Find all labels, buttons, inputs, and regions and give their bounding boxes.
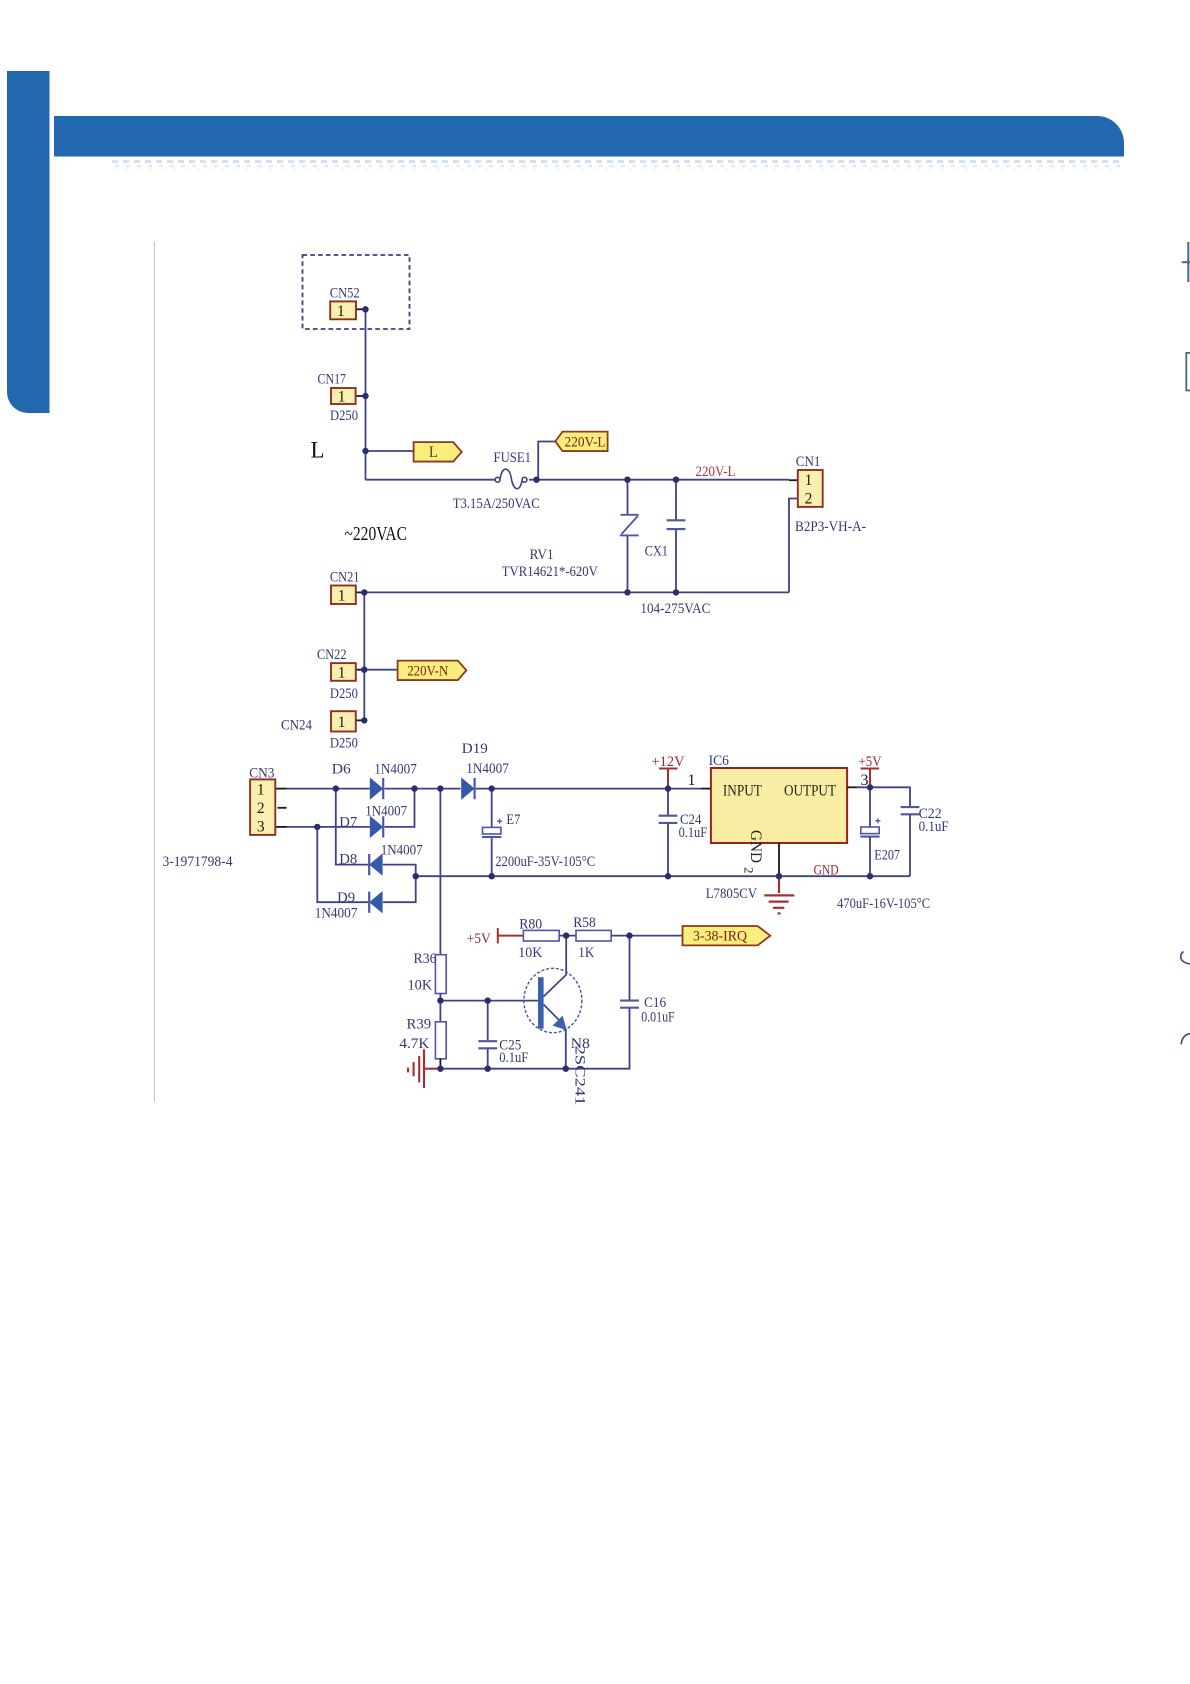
node D7 anode branch	[314, 824, 320, 830]
wire emitter vertical	[565, 1029, 567, 1069]
wire up to 220V-L flag	[538, 442, 555, 480]
diode D7	[370, 816, 383, 838]
svg-text:TVR14621*-620V: TVR14621*-620V	[502, 564, 598, 580]
node fuse out	[533, 477, 539, 483]
wire RV1 bottom lead	[627, 536, 629, 592]
capacitor C24 symbol	[659, 815, 678, 817]
svg-text:1: 1	[338, 714, 346, 731]
svg-text:1N4007: 1N4007	[381, 843, 423, 859]
wire R80 to R58	[559, 935, 576, 937]
wire CX1 top lead	[675, 480, 677, 520]
node raw dc tap	[437, 785, 443, 791]
svg-text:E7: E7	[506, 812, 520, 828]
wire CN1 pin2 down	[789, 499, 798, 593]
svg-text:10K: 10K	[408, 978, 433, 994]
varistor RV1 symbol	[620, 515, 639, 536]
svg-text:INPUT: INPUT	[723, 783, 762, 800]
svg-text:RV1: RV1	[530, 547, 554, 563]
node E7 gnd	[489, 873, 495, 879]
svg-text:+12V: +12V	[652, 754, 685, 770]
svg-text:3-1971798-4: 3-1971798-4	[163, 854, 233, 870]
wire E207 bottom lead	[869, 837, 871, 876]
wire FUSE1 to CN1 pin1	[529, 479, 789, 481]
svg-text:D250: D250	[330, 408, 358, 424]
node CN21 pin	[361, 589, 367, 595]
svg-text:CN17: CN17	[318, 372, 347, 388]
pin stub CN52	[355, 308, 365, 310]
diode D6	[370, 777, 383, 799]
node CN17 pin	[362, 393, 368, 399]
svg-text:B2P3-VH-A-: B2P3-VH-A-	[795, 519, 866, 535]
svg-text:2: 2	[742, 867, 757, 874]
connector CN24	[331, 711, 356, 731]
connector CN17	[331, 388, 356, 404]
svg-text:E207: E207	[874, 848, 900, 864]
clipped rectangle right edge	[1186, 353, 1190, 391]
wire C25 bottom lead	[487, 1049, 489, 1069]
fuse FUSE1 symbol	[495, 469, 527, 488]
diode D8	[369, 853, 382, 875]
wire to L flag	[366, 450, 414, 452]
node base divider	[437, 997, 443, 1003]
svg-text:+5V: +5V	[859, 754, 882, 770]
wire C24 bottom lead	[667, 823, 669, 876]
svg-text:2200uF-35V-105°C: 2200uF-35V-105°C	[495, 854, 595, 870]
power symbol +5V at IC6	[861, 769, 880, 787]
pin stub IC6 pin1	[701, 788, 711, 790]
wire D6 cathode rail	[385, 788, 461, 790]
connector CN1	[798, 470, 823, 507]
node D6/D7 cathode	[411, 785, 417, 791]
wire CN21-CN22-CN24 vertical	[363, 592, 365, 720]
svg-text:D6: D6	[332, 762, 352, 778]
node L tap	[362, 448, 368, 454]
svg-text:R36: R36	[414, 951, 437, 967]
svg-text:CN22: CN22	[317, 647, 347, 663]
svg-text:220V-L: 220V-L	[696, 464, 736, 480]
svg-text:D250: D250	[330, 736, 358, 752]
wire D9 anode to gnd rail	[383, 876, 416, 902]
resistor R39	[435, 1022, 446, 1059]
clipped symbol right edge top	[1182, 242, 1190, 282]
svg-text:104-275VAC: 104-275VAC	[640, 601, 710, 617]
svg-text:D7: D7	[339, 815, 357, 831]
net flag 220V-L	[555, 432, 607, 451]
node collector	[563, 932, 569, 938]
svg-text:3: 3	[257, 818, 265, 835]
svg-text:+5V: +5V	[467, 931, 491, 947]
svg-text:IC6: IC6	[709, 753, 730, 769]
node C25 top	[485, 997, 491, 1003]
pin stub CN1 pin1	[789, 479, 798, 481]
svg-text:2: 2	[805, 490, 813, 507]
node D6 anode branch	[333, 785, 339, 791]
wire CN52/CN17 vertical L net	[365, 309, 367, 479]
net flag 220V-N	[398, 661, 467, 680]
wire base drive	[440, 1000, 538, 1002]
wire neutral rail 220V-N	[364, 591, 789, 593]
svg-text:CN52: CN52	[330, 286, 360, 302]
pin stub CN24	[356, 719, 365, 721]
wire CN3 pin1 to D6	[287, 788, 370, 790]
header left vertical bar	[7, 71, 50, 413]
node +5V	[867, 784, 873, 790]
node CN24 pin	[361, 717, 367, 723]
svg-text:R58: R58	[573, 915, 596, 931]
node emitter gnd	[563, 1066, 569, 1072]
svg-text:~220VAC: ~220VAC	[345, 523, 408, 545]
node C25 gnd	[485, 1066, 491, 1072]
connector CN21	[331, 586, 356, 605]
svg-text:OUTPUT: OUTPUT	[784, 783, 836, 800]
svg-text:2: 2	[257, 800, 265, 817]
pin stub CN21	[356, 591, 365, 593]
diode D9	[369, 891, 382, 913]
svg-text:1: 1	[338, 587, 346, 604]
node CX1 top	[673, 477, 679, 483]
wire IC6 gnd pin down	[778, 843, 780, 876]
svg-text:L: L	[311, 438, 325, 463]
svg-text:0.1uF: 0.1uF	[919, 819, 949, 835]
node bridge minus	[413, 873, 419, 879]
svg-text:CN3: CN3	[249, 765, 274, 781]
transistor N8 body	[524, 968, 582, 1032]
svg-text:GND: GND	[747, 830, 764, 863]
capacitor C16 symbol	[620, 1000, 639, 1002]
pin stub CN22	[356, 669, 365, 671]
capacitor CX1 symbol	[667, 519, 686, 521]
resistor R80	[523, 930, 559, 941]
ground symbol main	[764, 876, 794, 913]
svg-text:220V-L: 220V-L	[565, 434, 606, 450]
wire raw dc vertical to R36	[439, 789, 441, 955]
wire C16 bottom to emitter rail	[566, 1008, 630, 1068]
pin stub IC6 pin3	[847, 786, 856, 788]
svg-text:0.1uF: 0.1uF	[679, 825, 708, 841]
dashed enclosure box around CN52	[303, 255, 410, 329]
header dotted shadow line	[112, 162, 1122, 171]
svg-text:1N4007: 1N4007	[466, 761, 509, 777]
wire CN3 pin3 to D7	[287, 826, 370, 828]
svg-text:1: 1	[337, 303, 345, 320]
node IRQ	[626, 932, 632, 938]
wire D8 anode to gnd rail	[383, 865, 416, 877]
wire L to FUSE1	[366, 479, 496, 481]
svg-text:FUSE1: FUSE1	[494, 450, 532, 466]
capacitor E7 electrolytic symbol	[483, 827, 501, 834]
svg-text:0.1uF: 0.1uF	[499, 1050, 528, 1066]
wire CX1 bottom lead	[675, 530, 677, 593]
capacitor C22 symbol	[901, 806, 920, 808]
svg-text:1K: 1K	[578, 945, 594, 961]
wire R39 bottom lead	[439, 1059, 441, 1069]
svg-text:D9: D9	[337, 890, 355, 906]
clipped arc right edge upper	[1181, 952, 1190, 964]
wire D19 cathode to IC6	[476, 788, 701, 790]
capacitor E207 electrolytic symbol	[861, 827, 879, 834]
svg-text:1: 1	[338, 665, 346, 682]
svg-text:L7805CV: L7805CV	[706, 886, 758, 902]
node E7 top	[489, 785, 495, 791]
wire pin1 branch down to D8	[336, 789, 369, 865]
svg-text:D8: D8	[339, 852, 357, 868]
node C24 gnd	[665, 873, 671, 879]
wire E207 top lead	[869, 787, 871, 826]
svg-text:3-38-IRQ: 3-38-IRQ	[693, 929, 747, 945]
svg-text:D19: D19	[462, 741, 488, 757]
node CN22 pin	[361, 667, 367, 673]
node IC6 gnd	[776, 873, 782, 879]
net flag L	[414, 442, 462, 461]
wire C16 top lead	[629, 936, 631, 1001]
svg-text:1: 1	[338, 389, 346, 406]
svg-text:220V-N: 220V-N	[407, 663, 448, 679]
svg-text:470uF-16V-105°C: 470uF-16V-105°C	[837, 896, 930, 912]
svg-text:0.01uF: 0.01uF	[641, 1009, 675, 1025]
svg-text:1N4007: 1N4007	[315, 906, 358, 922]
pin stub CN3 pin1	[276, 788, 287, 790]
wire collector vertical	[565, 936, 567, 975]
node CX1 bottom	[673, 589, 679, 595]
node +12V	[665, 785, 671, 791]
power symbol +12V	[659, 769, 678, 787]
wire C22 bottom lead	[909, 815, 911, 876]
wire C24 top lead	[667, 789, 669, 816]
connector CN3	[250, 779, 275, 835]
svg-text:CN24: CN24	[281, 717, 312, 733]
pin stub CN17	[356, 395, 366, 397]
node RV1 bottom	[624, 589, 630, 595]
svg-text:CN21: CN21	[330, 569, 360, 585]
svg-text:1N4007: 1N4007	[365, 803, 407, 819]
power symbol +5V at R80	[498, 928, 524, 943]
ground symbol left (rotated earth)	[408, 1049, 440, 1088]
wire to 220V-N flag	[364, 669, 398, 671]
svg-text:D250: D250	[330, 686, 358, 702]
svg-text:CX1: CX1	[645, 544, 668, 560]
wire emitter gnd rail	[440, 1068, 565, 1070]
connector CN22	[331, 663, 356, 681]
wire E7 top lead	[491, 789, 493, 827]
svg-text:2SC241: 2SC241	[572, 1046, 588, 1106]
pin stub CN3 pin2 no-connect	[278, 807, 287, 809]
svg-text:R80: R80	[519, 917, 542, 933]
svg-text:1N4007: 1N4007	[374, 762, 417, 778]
header horizontal bar	[54, 116, 1124, 157]
wire pin3 branch down to D9	[317, 827, 368, 902]
connector CN52	[330, 301, 356, 319]
svg-text:GND: GND	[814, 863, 839, 879]
wire +5V to C22	[857, 787, 911, 807]
node RV1 top	[624, 477, 630, 483]
pin stub CN3 pin3	[276, 826, 287, 828]
capacitor C25 symbol	[478, 1040, 497, 1042]
wire RV1 top lead	[627, 480, 629, 514]
schematic left margin line	[153, 242, 155, 1103]
svg-text:T3.15A/250VAC: T3.15A/250VAC	[453, 496, 540, 512]
svg-text:4.7K: 4.7K	[399, 1036, 429, 1052]
svg-text:R39: R39	[407, 1016, 432, 1032]
wire main gnd rail	[416, 875, 910, 877]
svg-text:1: 1	[688, 772, 696, 789]
svg-text:1: 1	[805, 472, 813, 489]
net flag 3-38-IRQ	[683, 926, 771, 945]
wire C25 top lead	[487, 1001, 489, 1041]
svg-text:L: L	[429, 444, 438, 461]
resistor R58	[576, 930, 611, 941]
svg-text:1: 1	[257, 781, 265, 798]
wire D7 cathode up to rail	[385, 789, 415, 827]
node E207 gnd	[867, 873, 873, 879]
svg-text:10K: 10K	[518, 945, 542, 961]
regulator IC6 body	[711, 768, 847, 843]
diode D19	[461, 777, 474, 799]
resistor R36	[435, 955, 446, 994]
wire E7 bottom lead	[491, 837, 493, 876]
clipped arc right edge lower	[1181, 1034, 1190, 1045]
wire R36 to R39	[439, 994, 441, 1022]
node emitter gnd left	[437, 1066, 443, 1072]
node CN52 pin	[362, 306, 368, 312]
wire R58 to IRQ flag	[611, 935, 683, 937]
svg-text:CN1: CN1	[796, 454, 821, 470]
